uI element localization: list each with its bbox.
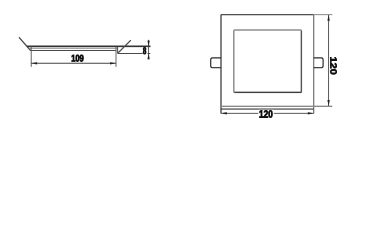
inner square darker right edge xyxy=(300,31,302,93)
outer square top edge xyxy=(221,14,314,16)
extra dark under-line xyxy=(221,108,314,110)
inner square xyxy=(234,30,302,92)
lower-right extension line xyxy=(118,53,151,55)
outer square right edge + bottom-dim extension xyxy=(313,15,315,114)
outer square bottom edge + right extension xyxy=(221,105,332,107)
thickness dimension vertical line xyxy=(148,40,150,60)
vertical dimension line 120 xyxy=(328,15,330,106)
outer square top extension to vertical dim xyxy=(314,14,333,16)
right bracket vertical xyxy=(117,47,119,54)
extension line right (109 dim) xyxy=(115,47,117,67)
extension line left (109 dim) xyxy=(30,47,32,67)
label 109 xyxy=(71,54,85,62)
mid thin layer line xyxy=(29,47,118,49)
left mounting tab xyxy=(211,58,221,68)
right mounting tab xyxy=(314,58,323,68)
spring clip left xyxy=(19,37,30,50)
label 8 (thickness) xyxy=(143,47,148,54)
dimension line 109 xyxy=(31,62,116,64)
bottom dimension line 120 xyxy=(221,112,314,114)
inner square darker bottom edge xyxy=(235,91,302,93)
bottom line xyxy=(30,50,117,52)
vertical label 120 xyxy=(330,57,336,74)
spring clip right xyxy=(118,40,131,53)
top face (thick) + right extension xyxy=(27,45,151,47)
outer square left edge + bottom-dim extension xyxy=(220,15,222,114)
